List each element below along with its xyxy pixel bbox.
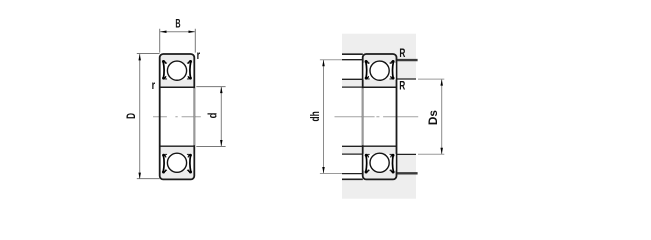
svg-text:R: R [399,78,405,92]
white notch right of bearing [397,79,417,154]
dimension Ds extension lines [418,79,444,154]
white notch left of bearing upper [342,55,363,79]
dimension d line [220,87,223,147]
svg-text:D: D [124,113,138,119]
label dh [308,111,322,121]
housing/shaft gray band [342,34,416,199]
label R bottom [399,78,405,92]
inner ring side face line lower left [342,145,363,147]
inner ring side face line upper left [342,86,363,88]
housing shoulder line dh lower left [342,173,363,175]
housing bore line upper left [342,53,363,55]
label d [206,113,220,119]
shaft shoulder face upper right (fillet R) [397,78,417,80]
left view lower section internals [161,153,193,173]
right view upper section internals [363,60,395,80]
left view bearing outline [160,54,195,179]
label B [175,16,180,30]
right view bearing outline [363,54,397,179]
label r top right [197,48,201,62]
dimension D line [138,54,141,179]
dimension dh extension lines [320,60,342,174]
svg-text:r: r [152,78,156,92]
dimension d extension lines [196,87,225,147]
left view centerline [153,116,201,118]
housing bore line lower left [342,178,363,180]
right view lower section internals [363,153,395,173]
svg-text:B: B [175,16,180,30]
white bore band [342,87,416,146]
housing shoulder line dh upper left [342,59,363,61]
housing shoulder face upper right (fillet R) [397,59,418,61]
label R top [399,46,405,60]
dimension dh line [322,60,325,173]
svg-text:d: d [206,113,220,119]
white notch left of bearing lower [342,154,363,178]
right view bearing section fills [364,55,396,179]
svg-text:R: R [399,46,405,60]
svg-text:r: r [197,48,201,62]
left view bearing section fills [161,55,194,179]
housing shoulder face lower right (fillet R) [397,172,418,174]
dimension B line [160,30,195,33]
dimension Ds line [440,79,443,154]
dimension B extension lines [160,29,196,53]
label D [124,113,138,119]
dimension D extension lines [137,54,160,179]
shaft shoulder line upper left [342,78,363,80]
shaft shoulder line lower left [342,153,363,155]
svg-text:dh: dh [308,111,322,121]
left view upper section internals [161,60,193,80]
right view centerline [335,116,419,118]
label Ds [426,110,440,125]
shaft shoulder face lower right (fillet R) [397,153,417,155]
svg-text:Ds: Ds [426,110,440,125]
label r left [152,78,156,92]
